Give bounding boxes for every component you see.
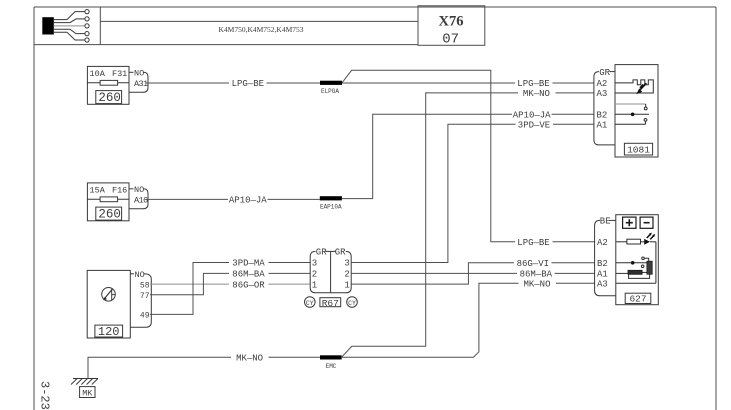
svg-text:3: 3 <box>312 259 317 269</box>
svg-text:MK: MK <box>82 388 93 398</box>
svg-text:MK—NO: MK—NO <box>236 353 263 363</box>
svg-text:F16: F16 <box>112 186 127 196</box>
svg-text:120: 120 <box>98 325 120 339</box>
svg-text:86M—BA: 86M—BA <box>520 270 553 280</box>
wire 3PD-VE R67:3 to valve 1081 pin A1 <box>351 124 594 262</box>
wire LPG-BE fuse F31 to ELPGA <box>146 82 320 84</box>
wire MK-NO ground to EMC <box>88 357 320 378</box>
wire AP10-JA fuse F16 to EAP10A <box>146 198 320 200</box>
svg-text:EMC: EMC <box>326 363 337 370</box>
svg-text:GR: GR <box>316 248 327 258</box>
svg-text:A2: A2 <box>597 238 608 248</box>
heater element <box>615 80 653 93</box>
svg-text:A3: A3 <box>597 89 608 99</box>
wire MK-NO EMC to unit 627 pin A3 <box>342 283 595 357</box>
svg-text:3-23: 3-23 <box>38 381 52 410</box>
switch common line B2 <box>615 113 649 115</box>
relay common B2 <box>616 262 647 264</box>
svg-text:NO: NO <box>135 270 145 280</box>
svg-text:86M—BA: 86M—BA <box>232 270 265 280</box>
wire LPG-BE ELPGA to valve 1081 pin A2 <box>342 82 594 84</box>
svg-text:49: 49 <box>140 312 150 321</box>
fuse F16 (fusebox 260) <box>87 183 148 221</box>
inline connector EMC <box>320 355 342 359</box>
svg-text:NO: NO <box>134 69 144 79</box>
switch contact upper line <box>615 103 646 105</box>
wire 86G-OR 120:58 to R67:1 <box>150 283 310 285</box>
svg-text:86G—OR: 86G—OR <box>232 280 265 290</box>
svg-text:NO: NO <box>134 185 144 195</box>
plus terminal <box>623 217 636 228</box>
svg-text:A1: A1 <box>597 270 608 280</box>
svg-text:07: 07 <box>442 31 459 47</box>
svg-text:A2: A2 <box>597 79 608 89</box>
unit 627 label box <box>625 293 651 303</box>
svg-text:2: 2 <box>344 270 349 280</box>
relay resistor <box>647 261 652 274</box>
svg-text:A1: A1 <box>597 121 608 131</box>
svg-text:R67: R67 <box>322 298 339 309</box>
svg-text:AP10—JA: AP10—JA <box>513 111 551 121</box>
svg-text:77: 77 <box>140 292 150 301</box>
svg-text:X76: X76 <box>439 13 464 29</box>
title block <box>34 7 418 45</box>
svg-text:B2: B2 <box>597 111 608 121</box>
svg-text:627: 627 <box>629 293 646 304</box>
wire 86M-BA 120:77 to R67:2 <box>150 273 310 294</box>
LPG control unit 627 connector bracket <box>595 220 616 295</box>
LPG solenoid valve 1081 body <box>615 65 658 157</box>
page reference box X76 07 <box>418 6 485 48</box>
ignition switch 120 <box>87 270 130 338</box>
harness connector icon <box>42 10 89 43</box>
svg-text:MK—NO: MK—NO <box>523 89 550 99</box>
svg-text:10A: 10A <box>90 69 106 79</box>
coil feed A1 <box>616 272 628 274</box>
svg-text:A3: A3 <box>597 279 608 289</box>
svg-text:58: 58 <box>140 281 150 290</box>
diode <box>644 239 650 245</box>
svg-text:F31: F31 <box>112 69 127 79</box>
svg-text:15A: 15A <box>90 186 106 196</box>
valve arrow <box>640 83 646 89</box>
svg-text:86G—VI: 86G—VI <box>517 259 549 269</box>
svg-text:3PD—MA: 3PD—MA <box>232 259 265 269</box>
ground MK <box>71 357 98 397</box>
svg-text:LPG—BE: LPG—BE <box>517 238 549 248</box>
ignition switch symbol <box>102 288 116 302</box>
svg-text:GR: GR <box>335 248 346 258</box>
fuse F31 pins NO / A31 <box>129 72 148 92</box>
svg-text:2: 2 <box>312 270 317 280</box>
CY splice circles <box>305 297 316 308</box>
inline connector EAP10A <box>320 196 342 200</box>
wire MK-NO EMC to valve 1081 pin A3 <box>342 93 594 357</box>
LPG control unit 627 body <box>616 215 659 305</box>
svg-text:CY: CY <box>306 300 314 307</box>
junction connector R67 <box>305 251 358 307</box>
svg-text:A31: A31 <box>134 79 148 89</box>
svg-text:AP10—JA: AP10—JA <box>229 196 267 206</box>
wire 3PD-MA 120:49 to R67:3 <box>150 263 310 315</box>
wire 86G-VI R67:1 to unit 627 pin B2 <box>351 263 594 284</box>
svg-text:EAP10A: EAP10A <box>320 204 342 211</box>
svg-text:CY: CY <box>348 300 356 307</box>
svg-text:B2: B2 <box>597 259 608 269</box>
svg-text:A16: A16 <box>134 196 148 206</box>
svg-text:3PD—VE: 3PD—VE <box>518 121 550 131</box>
LPG solenoid valve 1081 connector bracket <box>594 72 615 145</box>
svg-text:LPG—BE: LPG—BE <box>232 79 264 89</box>
svg-text:260: 260 <box>98 91 121 105</box>
minus terminal <box>640 217 653 228</box>
svg-text:GR: GR <box>599 68 610 78</box>
svg-text:K4M750,K4M752,K4M753: K4M750,K4M752,K4M753 <box>218 25 303 34</box>
resistor <box>616 241 627 243</box>
right rail and A3 line <box>655 242 657 283</box>
svg-text:1: 1 <box>344 280 349 290</box>
svg-text:MK—NO: MK—NO <box>523 279 550 289</box>
light arrows <box>647 234 651 238</box>
wire AP10-JA EAP10A to valve 1081 pin B2 <box>342 114 594 198</box>
fuse F31 (fusebox 260) <box>87 66 129 104</box>
switch 120 pins NO / 58 / 77 / 49 <box>130 274 151 327</box>
wire LPG-BE branch ELPGA to unit 627 pin A2 <box>342 70 594 242</box>
inline connector ELPGA <box>320 81 342 85</box>
relay coil <box>628 270 642 274</box>
svg-text:1081: 1081 <box>627 144 650 155</box>
svg-text:260: 260 <box>98 207 121 221</box>
svg-text:ELPGA: ELPGA <box>321 88 339 95</box>
valve 1081 label box <box>624 143 652 155</box>
svg-text:3: 3 <box>344 259 349 269</box>
svg-text:LPG—BE: LPG—BE <box>517 79 549 89</box>
svg-text:1: 1 <box>312 280 317 290</box>
svg-text:BE: BE <box>600 217 611 227</box>
relay dot <box>631 261 635 265</box>
wire 86M-BA R67:2 to unit 627 pin A1 <box>351 272 594 274</box>
